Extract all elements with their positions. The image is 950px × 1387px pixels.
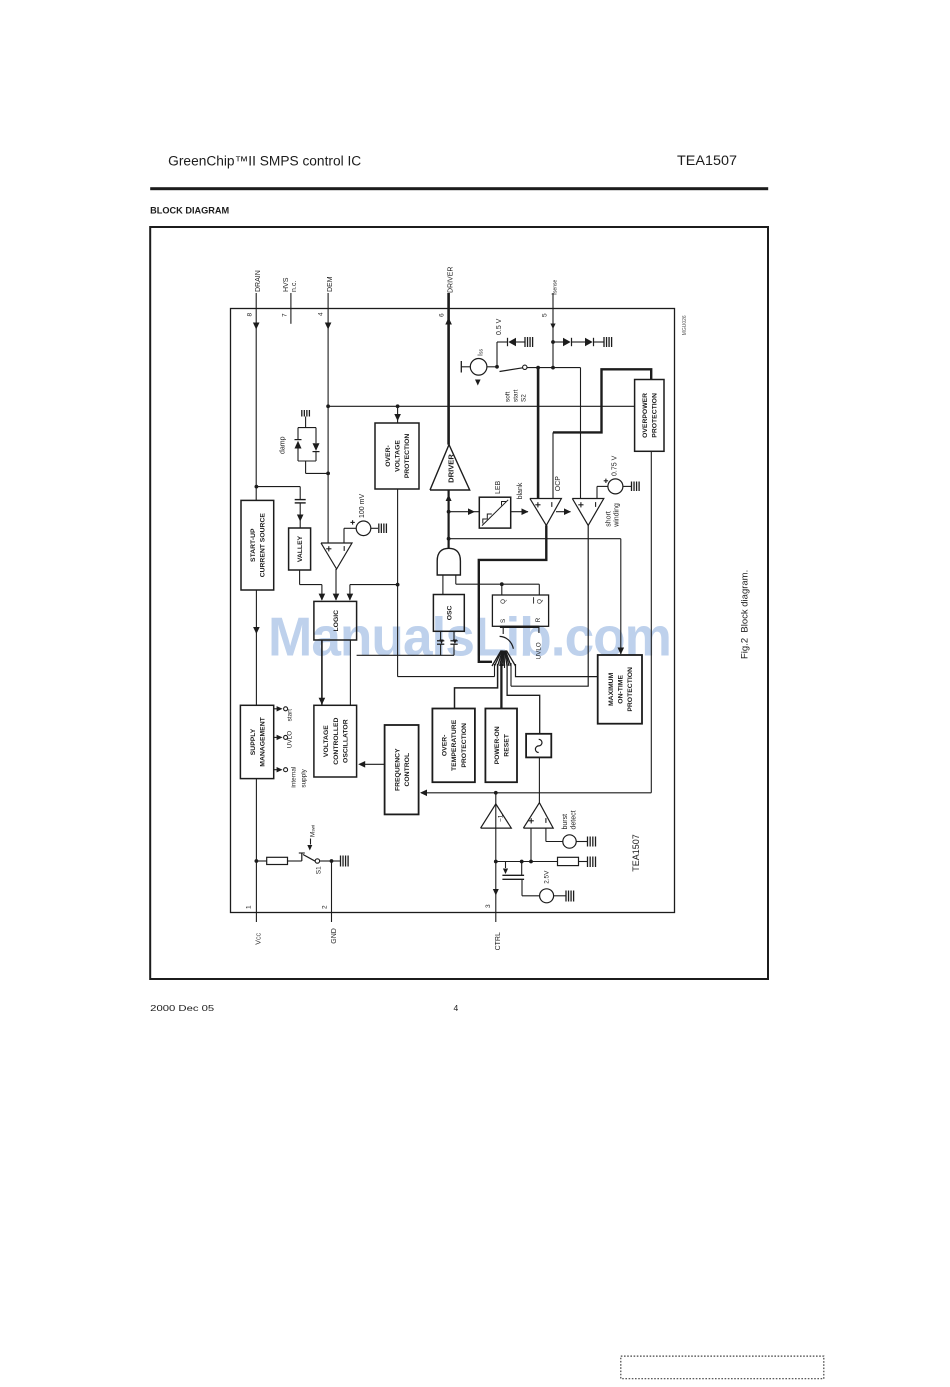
svg-text:start: start — [287, 709, 294, 722]
svg-text:VCC: VCC — [256, 932, 263, 944]
svg-text:S1: S1 — [316, 866, 323, 874]
svg-text:Isense: Isense — [552, 279, 559, 295]
svg-text:Mswi: Mswi — [310, 825, 317, 837]
svg-text:detect: detect — [571, 810, 578, 829]
svg-text:soft: soft — [505, 391, 512, 402]
svg-text:0.5 V: 0.5 V — [496, 318, 503, 335]
svg-text:5: 5 — [542, 313, 549, 317]
svg-text:LEB: LEB — [495, 480, 502, 494]
svg-text:UVLO: UVLO — [287, 731, 294, 748]
svg-text:S: S — [500, 619, 507, 623]
svg-text:DRIVER: DRIVER — [447, 267, 454, 293]
svg-text:DRIVER: DRIVER — [446, 454, 455, 483]
svg-text:ON-TIME: ON-TIME — [617, 675, 624, 704]
svg-text:damp: damp — [280, 436, 287, 454]
svg-text:CTRL: CTRL — [495, 932, 502, 950]
svg-text:start: start — [513, 389, 520, 402]
svg-text:OSCILLATOR: OSCILLATOR — [342, 719, 349, 763]
svg-text:FREQUENCY: FREQUENCY — [394, 748, 401, 791]
svg-text:TEA1507: TEA1507 — [677, 153, 737, 168]
svg-text:2000 Dec 05: 2000 Dec 05 — [150, 1003, 214, 1013]
svg-text:burst: burst — [562, 814, 569, 830]
svg-text:Iss: Iss — [478, 349, 485, 356]
svg-text:OVER-: OVER- — [385, 445, 392, 467]
svg-text:BLOCK DIAGRAM: BLOCK DIAGRAM — [150, 206, 229, 216]
svg-text:CONTROL: CONTROL — [404, 753, 411, 787]
svg-text:winding: winding — [614, 503, 621, 528]
svg-text:3: 3 — [485, 904, 492, 908]
svg-text:MANAGEMENT: MANAGEMENT — [259, 716, 266, 766]
svg-text:internal: internal — [291, 767, 298, 788]
svg-text:GreenChip™II SMPS control IC: GreenChip™II SMPS control IC — [168, 154, 361, 169]
svg-text:DEM: DEM — [327, 276, 334, 292]
svg-text:OSC: OSC — [446, 605, 453, 620]
svg-text:2: 2 — [322, 905, 329, 909]
svg-text:4: 4 — [318, 312, 325, 316]
svg-text:1: 1 — [246, 905, 253, 909]
svg-text:OVER-: OVER- — [442, 735, 449, 757]
svg-text:8: 8 — [247, 313, 254, 317]
svg-text:LOGIC: LOGIC — [333, 610, 340, 632]
svg-text:4: 4 — [454, 1003, 459, 1013]
svg-text:−1: −1 — [497, 814, 504, 822]
svg-text:PROTECTION: PROTECTION — [461, 723, 468, 768]
svg-text:SUPPLY: SUPPLY — [250, 728, 257, 755]
svg-text:OCP: OCP — [555, 476, 562, 492]
svg-text:VOLTAGE: VOLTAGE — [323, 725, 330, 757]
svg-text:0.75 V: 0.75 V — [612, 455, 619, 476]
svg-text:Q: Q — [500, 599, 507, 604]
svg-text:2.5V: 2.5V — [544, 870, 551, 884]
svg-text:6: 6 — [439, 313, 446, 317]
svg-text:GND: GND — [331, 928, 338, 944]
svg-text:TEMPERATURE: TEMPERATURE — [451, 719, 458, 771]
svg-text:VALLEY: VALLEY — [297, 535, 304, 562]
svg-text:HVS: HVS — [283, 277, 290, 292]
svg-text:blank: blank — [517, 482, 524, 499]
svg-text:n.c.: n.c. — [291, 281, 298, 292]
svg-text:RESET: RESET — [504, 733, 511, 757]
svg-text:VOLTAGE: VOLTAGE — [395, 440, 402, 472]
svg-text:MGU026: MGU026 — [682, 315, 688, 335]
svg-text:Q: Q — [536, 599, 543, 604]
svg-text:ManualsLib.com: ManualsLib.com — [268, 607, 671, 668]
svg-text:OVERPOWER: OVERPOWER — [642, 393, 649, 438]
svg-text:MAXIMUM: MAXIMUM — [608, 672, 615, 706]
svg-text:R: R — [535, 617, 542, 622]
svg-text:UVLO: UVLO — [536, 642, 543, 659]
svg-text:short: short — [606, 511, 613, 527]
svg-text:Fig.2 Block diagram.: Fig.2 Block diagram. — [740, 570, 751, 659]
svg-text:POWER-ON: POWER-ON — [494, 726, 501, 764]
svg-text:PROTECTION: PROTECTION — [627, 667, 634, 712]
svg-text:PROTECTION: PROTECTION — [404, 434, 411, 479]
svg-text:100 mV: 100 mV — [359, 494, 366, 518]
svg-text:supply: supply — [301, 768, 308, 787]
svg-text:DRAIN: DRAIN — [255, 270, 262, 292]
svg-text:CONTROLLED: CONTROLLED — [333, 717, 340, 764]
svg-text:CURRENT SOURCE: CURRENT SOURCE — [260, 513, 267, 578]
svg-text:START-UP: START-UP — [250, 528, 257, 562]
svg-text:7: 7 — [282, 313, 289, 317]
svg-text:S2: S2 — [521, 394, 528, 402]
svg-text:TEA1507: TEA1507 — [631, 834, 641, 872]
svg-text:PROTECTION: PROTECTION — [652, 393, 659, 438]
